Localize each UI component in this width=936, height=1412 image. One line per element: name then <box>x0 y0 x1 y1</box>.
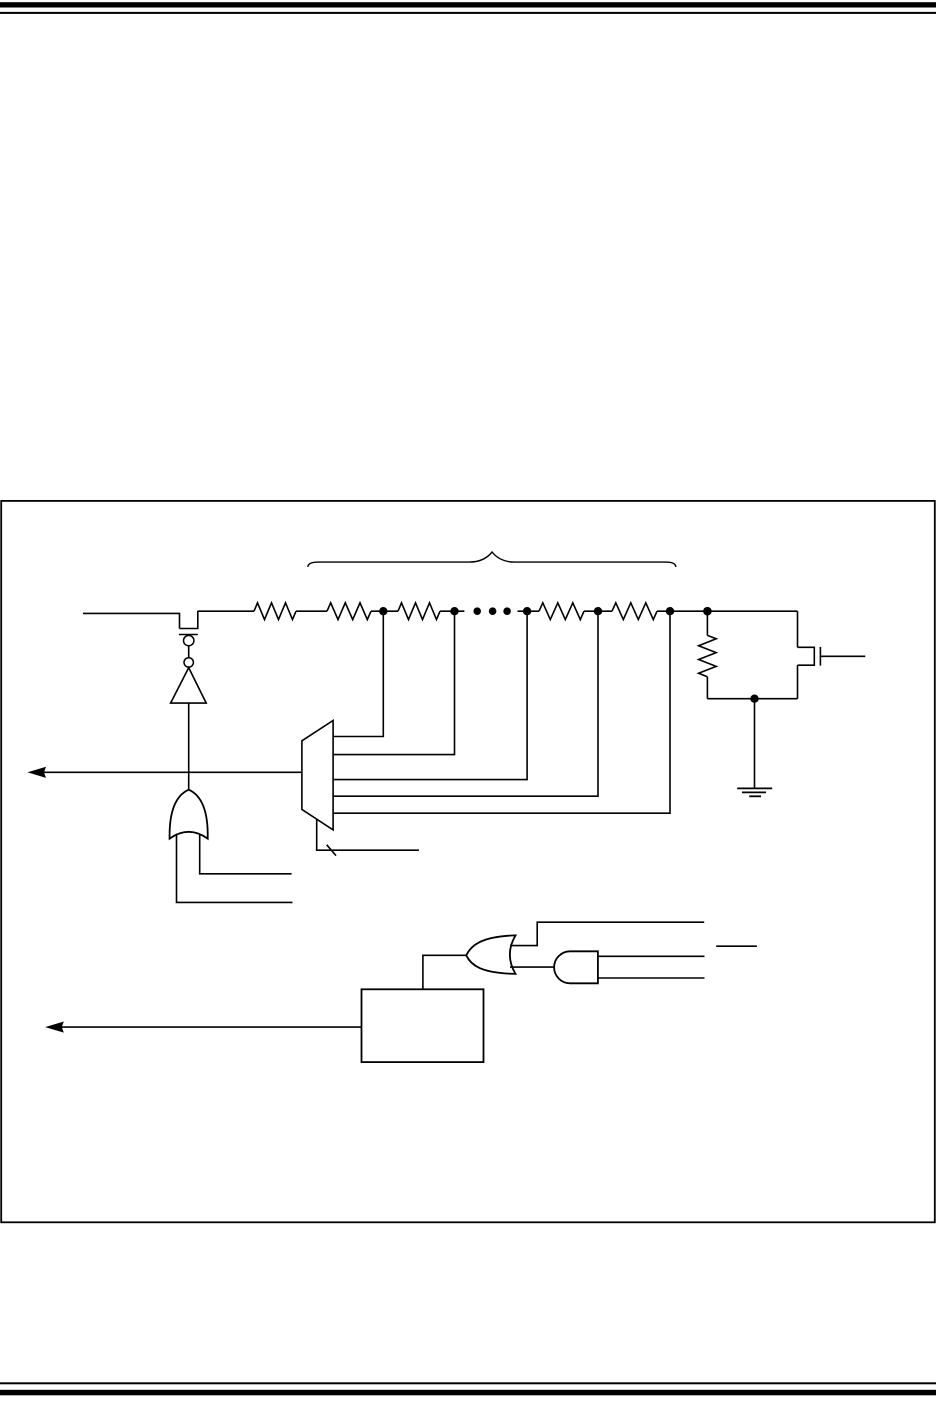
wire: block output <box>61 1026 362 1028</box>
transistor Q1 channel <box>180 611 198 629</box>
OR gate U4 (2-input, output left) <box>466 935 515 974</box>
wire: U4 output to block <box>423 955 466 989</box>
junction dot D <box>594 607 602 615</box>
resistor R3 <box>398 603 440 620</box>
tap wire 2 <box>333 611 454 754</box>
resistor R4 <box>539 603 584 620</box>
bottom page rule thick <box>0 1390 936 1396</box>
wire: R6 bottom lead <box>706 677 708 699</box>
wire: U5 input B <box>598 977 705 979</box>
top page rule thin <box>0 12 936 14</box>
wire: U3 input A <box>177 834 293 903</box>
junction dot E <box>666 607 674 615</box>
wire: R6 top lead <box>706 611 708 635</box>
resistor R1 <box>254 603 296 620</box>
wire: stub to dot C <box>518 610 540 612</box>
resistor R5 <box>612 603 657 620</box>
mux U2 <box>302 721 333 830</box>
wire: mux output <box>44 771 302 773</box>
wire: R4 to R5 <box>584 610 612 612</box>
junction dot A <box>379 607 387 615</box>
arrowhead: block output <box>47 1022 63 1032</box>
top page rule thick <box>0 2 936 7</box>
junction dot B <box>450 607 458 615</box>
OR gate U3 (2-input, pointing up) <box>170 790 208 839</box>
resistor R6 (pull-down) <box>699 635 717 676</box>
tap wire 4 <box>333 611 598 796</box>
figure frame <box>1 501 935 1222</box>
wire: Q2 source <box>797 665 799 699</box>
wire: U5 input A <box>598 955 705 957</box>
wire: Q2 drain <box>797 611 799 647</box>
ellipsis dot 1 <box>473 607 481 615</box>
signal stub line <box>716 945 757 947</box>
tap wire 5 <box>333 611 670 813</box>
junction dot F <box>703 607 712 616</box>
arrowhead: mux output <box>29 768 45 778</box>
ellipsis dot 3 <box>503 607 511 615</box>
tap wire 3 <box>333 611 527 779</box>
wire: input to pass transistor Q1 <box>83 613 180 628</box>
wire: Q1 drain to R1 <box>198 610 254 612</box>
wire: R2 to R3 <box>371 610 398 612</box>
wire: bottom rail <box>707 698 797 700</box>
ellipsis dot 2 <box>489 607 497 615</box>
tap wire 1 <box>333 611 383 736</box>
wire: R5 to Q2 drain <box>657 610 798 612</box>
bus-width slash <box>327 845 336 856</box>
wire: inverter bubble to gate bubble <box>188 646 190 658</box>
ground <box>737 788 772 796</box>
wire: U3 input B <box>200 834 292 874</box>
wire: R1 to R2 <box>296 610 327 612</box>
mux select wire <box>317 819 419 850</box>
transistor Q1 gate bar <box>179 634 198 636</box>
Q2 gate bar <box>819 647 821 666</box>
inverter U1 <box>171 668 207 704</box>
block <box>362 989 484 1062</box>
wire: to ground <box>754 699 756 789</box>
junction dot C <box>523 607 531 615</box>
AND gate U5 (output left) <box>554 951 598 983</box>
wire: inverter input down to OR gate <box>188 703 190 790</box>
wire: U4 top input <box>510 922 704 945</box>
transistor Q2 body <box>798 647 815 665</box>
brace over resistor ladder <box>308 552 676 567</box>
Q1 gate bubble <box>184 635 194 645</box>
wire: R3 to dot B stub <box>440 610 464 612</box>
junction dot G <box>750 695 758 703</box>
Q2 gate lead <box>820 655 865 657</box>
inverter U1 output bubble <box>184 658 193 667</box>
resistor R2 <box>327 603 371 620</box>
bottom page rule thin <box>0 1382 936 1384</box>
wire: U4 bottom input from U5 <box>510 966 555 968</box>
